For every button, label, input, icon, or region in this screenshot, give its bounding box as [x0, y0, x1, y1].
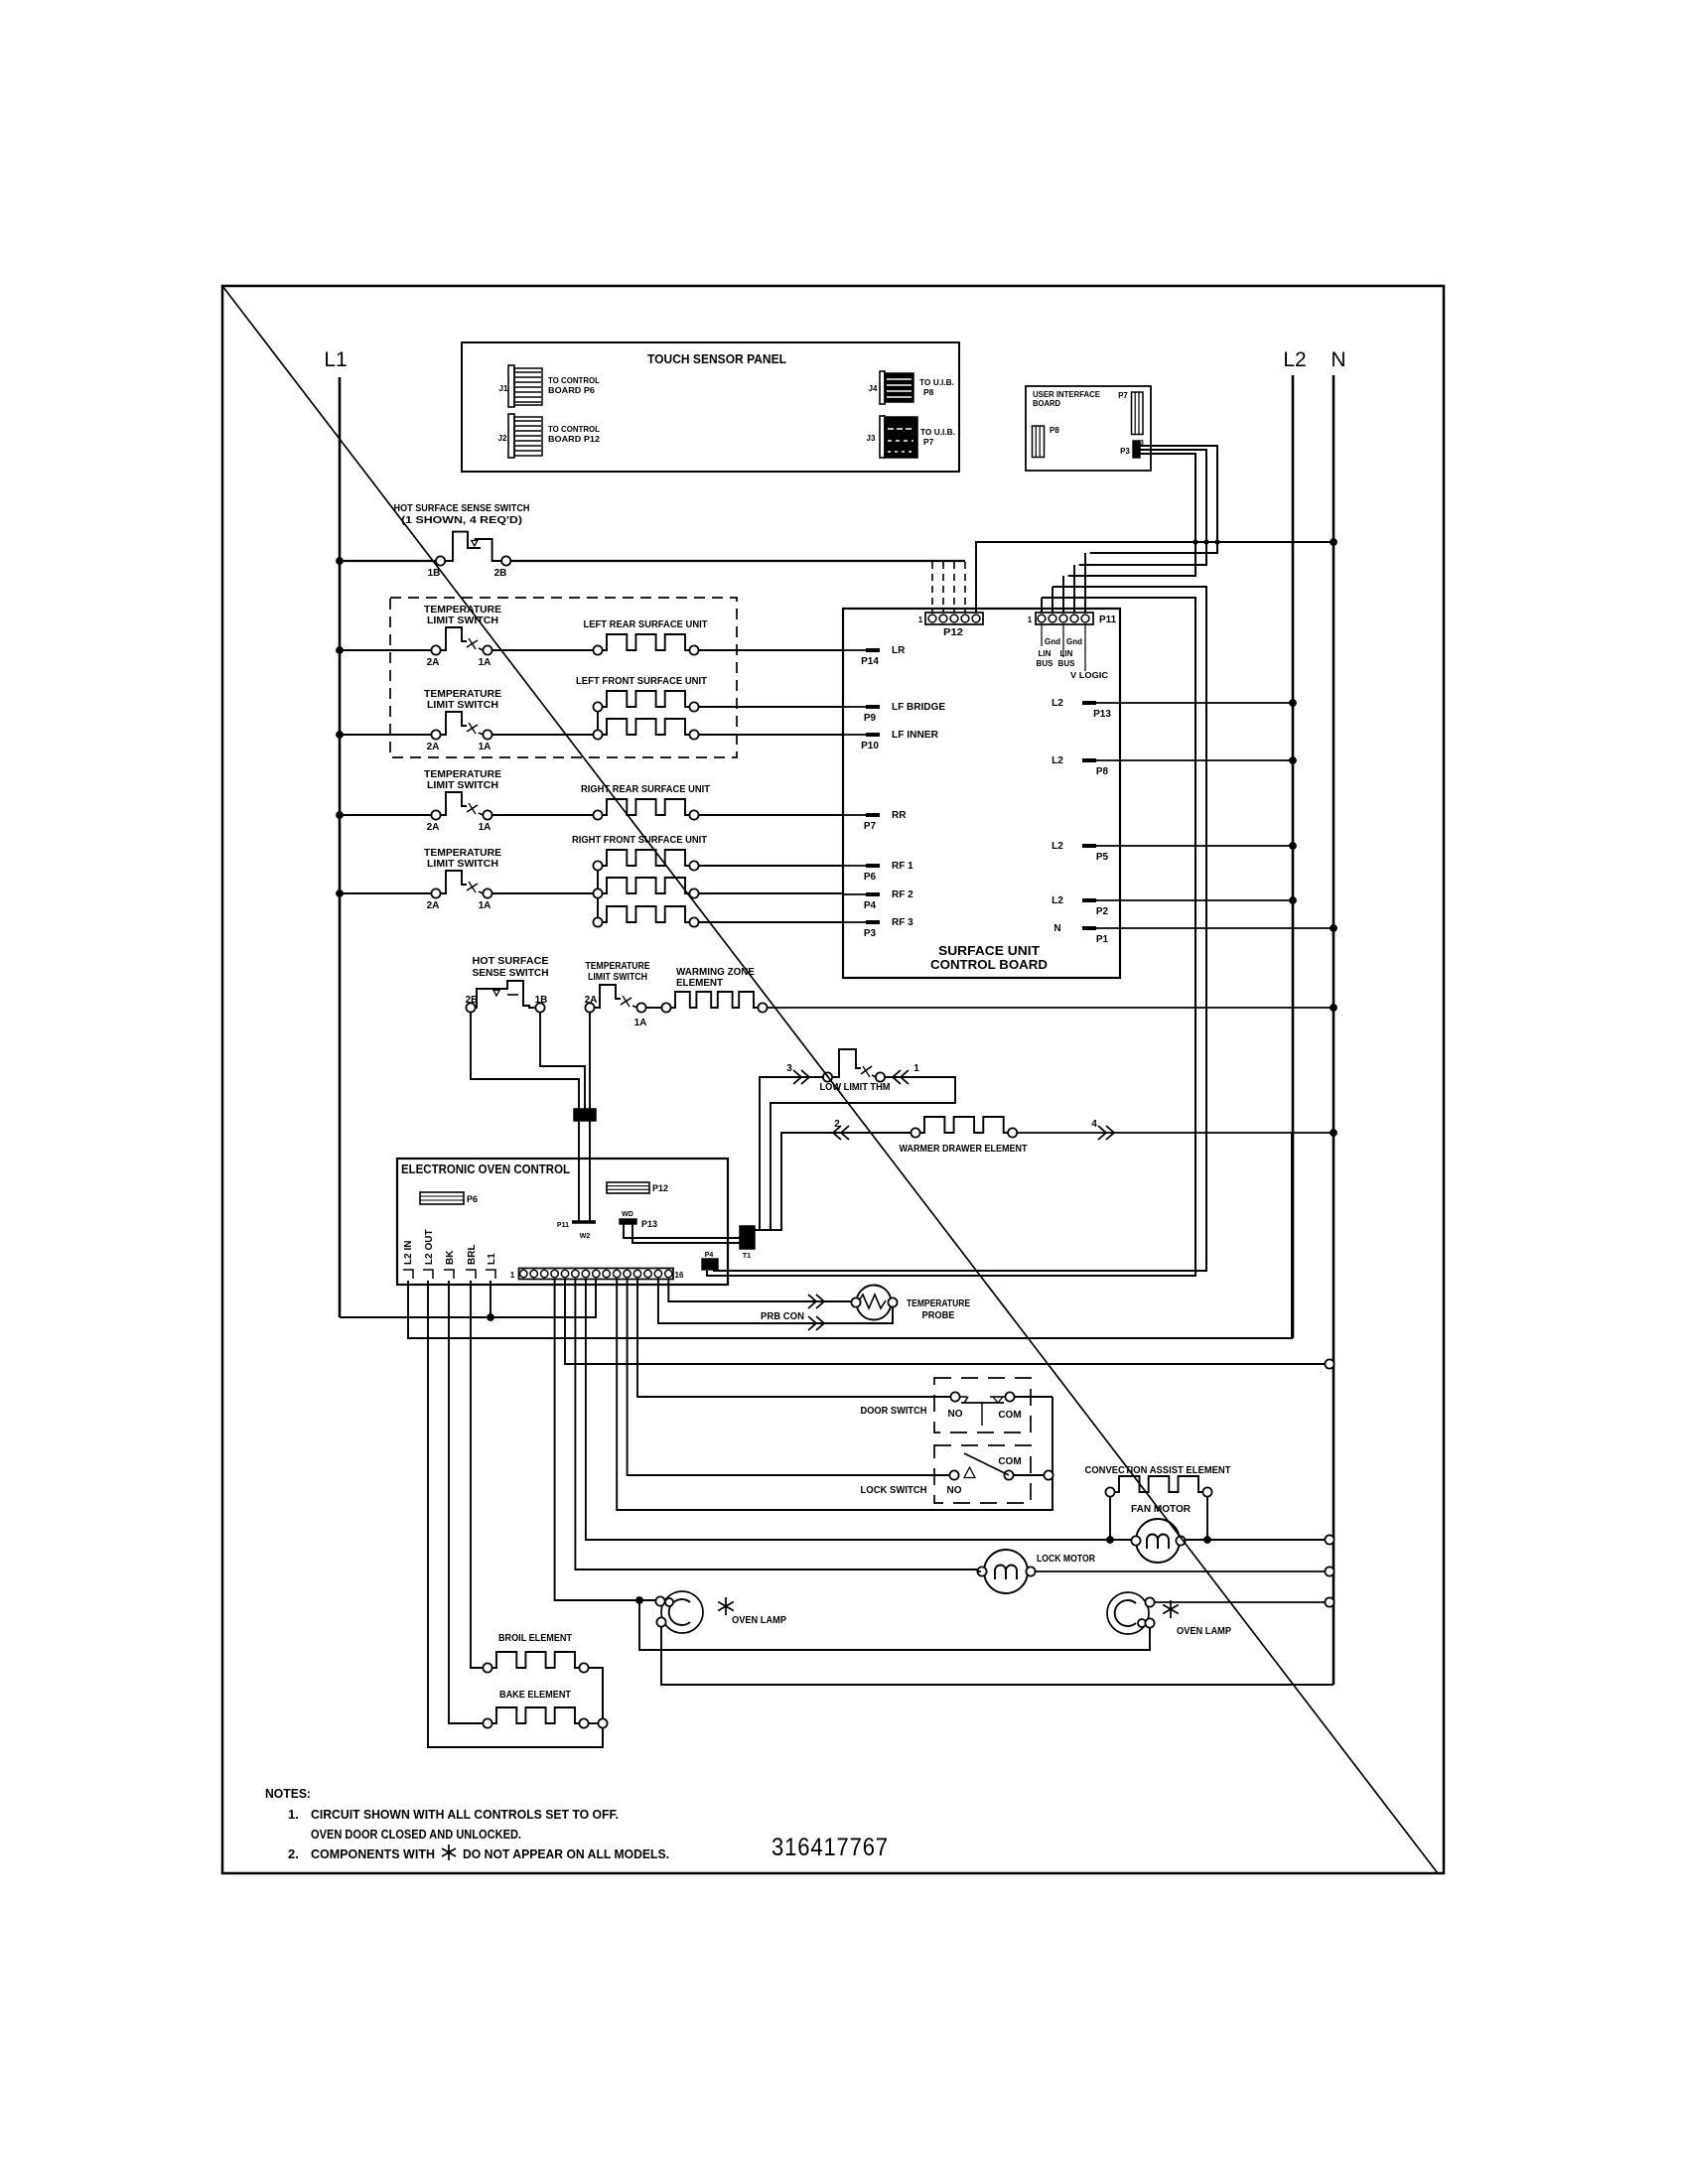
- wire switch to element LR: [492, 649, 593, 651]
- wire P1 to N: [1120, 927, 1333, 929]
- svg-text:BAKE ELEMENT: BAKE ELEMENT: [499, 1690, 571, 1701]
- pin P10 stub on surface unit control board: [843, 734, 880, 736]
- connector P3 on user interface board: [1133, 441, 1140, 458]
- svg-text:NO: NO: [948, 1409, 963, 1420]
- wire LF inner to P10: [699, 734, 843, 736]
- svg-text:LEFT REAR SURFACE UNIT: LEFT REAR SURFACE UNIT: [584, 619, 708, 630]
- temperature limit switch LR: [431, 645, 440, 654]
- lock switch box: [934, 1445, 1031, 1503]
- temperature limit switch RF: [431, 888, 440, 897]
- dashed boundary left surface units: [390, 598, 737, 757]
- node L1 row LR: [336, 646, 344, 654]
- wire LIN BUS left vertical: [707, 598, 1195, 1276]
- wire L1 vertical bus: [339, 377, 342, 1317]
- svg-text:P4: P4: [864, 900, 877, 911]
- wire P13 to L2: [1120, 702, 1293, 704]
- P11 pin wires to bundle: [1041, 598, 1043, 613]
- heating element bake: [483, 1718, 491, 1727]
- svg-text:P7: P7: [923, 437, 934, 447]
- wire L2 IN to L2 bus: [408, 1134, 1292, 1338]
- wire L1 bus to oven control L1 terminal: [340, 1279, 596, 1317]
- svg-text:TO CONTROL: TO CONTROL: [548, 424, 600, 434]
- wire pin11 to lock switch: [628, 1279, 949, 1475]
- svg-text:1A: 1A: [479, 657, 491, 668]
- heating element warmer drawer: [911, 1128, 919, 1137]
- wire N to surface board P12 pin 5: [976, 542, 1333, 613]
- svg-text:P3: P3: [1120, 447, 1130, 456]
- svg-text:LIMIT SWITCH: LIMIT SWITCH: [427, 780, 498, 791]
- arrow connector 3: [793, 1070, 801, 1084]
- svg-text:LEFT FRONT SURFACE UNIT: LEFT FRONT SURFACE UNIT: [576, 676, 707, 687]
- svg-text:NOTES:: NOTES:: [265, 1786, 311, 1801]
- border frame: [222, 286, 1444, 1873]
- heating element left front bridge: [593, 702, 602, 711]
- wire oven control L1 terminal drop: [490, 1281, 491, 1317]
- wire RF element tie: [597, 866, 599, 922]
- svg-text:BK: BK: [445, 1250, 456, 1265]
- arrow connector 1: [901, 1070, 909, 1084]
- svg-text:L2 OUT: L2 OUT: [424, 1229, 435, 1265]
- svg-text:1B: 1B: [535, 995, 548, 1006]
- wire RF1 to P6: [699, 865, 843, 867]
- svg-text:DOOR SWITCH: DOOR SWITCH: [861, 1406, 927, 1417]
- wire elements common down: [602, 1728, 604, 1747]
- wire sense switch to control board P12: [510, 560, 965, 562]
- svg-text:COM: COM: [998, 1456, 1021, 1467]
- svg-text:J2: J2: [498, 434, 507, 443]
- wire pin4 to oven lamp line: [555, 1279, 655, 1600]
- wire L1 to temperature limit switch LF: [340, 734, 436, 736]
- svg-text:OVEN LAMP: OVEN LAMP: [1177, 1626, 1231, 1637]
- pin P13 stub on surface unit control board: [1082, 702, 1120, 704]
- oven control terminal L2 OUT: [423, 1270, 433, 1279]
- pin P4 stub on surface unit control board: [843, 893, 880, 895]
- svg-text:LIN: LIN: [1060, 649, 1073, 658]
- svg-text:1.: 1.: [288, 1807, 299, 1822]
- heating element left front inner: [593, 730, 602, 739]
- svg-text:LOW LIMIT THM: LOW LIMIT THM: [820, 1082, 891, 1093]
- wire switch to element LF: [492, 734, 593, 736]
- door switch contacts: [950, 1392, 959, 1401]
- svg-text:LIMIT SWITCH: LIMIT SWITCH: [427, 615, 498, 626]
- svg-text:PROBE: PROBE: [922, 1310, 955, 1321]
- heating element right front 3: [593, 917, 602, 926]
- svg-text:N: N: [1053, 923, 1060, 934]
- inline connector warming zone: [574, 1109, 596, 1121]
- svg-text:316417767: 316417767: [772, 1834, 889, 1861]
- svg-text:SURFACE UNIT: SURFACE UNIT: [938, 943, 1040, 958]
- svg-text:BOARD P6: BOARD P6: [548, 385, 595, 395]
- svg-text:WARMER DRAWER ELEMENT: WARMER DRAWER ELEMENT: [900, 1144, 1028, 1155]
- wire L1 to hot surface sense switch: [340, 560, 436, 562]
- pin P2 stub on surface unit control board: [1082, 899, 1120, 901]
- svg-text:P11: P11: [1099, 614, 1117, 625]
- svg-text:1: 1: [918, 615, 923, 624]
- wire L2 OUT to elements common: [428, 1281, 603, 1747]
- wire lock switch COM to drop: [1014, 1474, 1045, 1476]
- wire low limit right loop: [755, 1077, 955, 1230]
- svg-text:Gnd: Gnd: [1066, 637, 1082, 646]
- connector J1: [508, 365, 514, 407]
- heating element right front 1: [593, 861, 602, 870]
- touch sensor panel box: [462, 342, 959, 472]
- terminal strip on oven control: [519, 1269, 674, 1280]
- connector T1: [740, 1226, 755, 1249]
- wire left lamp loop to right lamp: [639, 1600, 1150, 1650]
- svg-text:N: N: [1331, 348, 1345, 371]
- oven lamp left: [661, 1591, 703, 1633]
- wire P8 to L2: [1120, 759, 1293, 761]
- connector P7 on user interface board: [1132, 392, 1144, 435]
- svg-text:RF 1: RF 1: [892, 861, 913, 872]
- heating element left rear surface unit: [593, 645, 602, 654]
- svg-text:HOT SURFACE SENSE SWITCH: HOT SURFACE SENSE SWITCH: [394, 502, 530, 514]
- electronic oven control box: [397, 1159, 728, 1285]
- svg-text:J4: J4: [869, 384, 878, 393]
- wire U.I.B. P3 to P11 pin5: [1090, 446, 1217, 553]
- wire pin10 to lock circuit: [617, 1279, 1052, 1510]
- svg-text:P12: P12: [943, 627, 963, 638]
- connector J2: [508, 414, 514, 458]
- svg-text:1: 1: [510, 1271, 515, 1280]
- svg-text:RIGHT REAR SURFACE UNIT: RIGHT REAR SURFACE UNIT: [581, 784, 710, 795]
- wire BRL to broil element: [471, 1281, 483, 1668]
- pin P1 stub on surface unit control board: [1082, 927, 1120, 929]
- svg-text:L2 IN: L2 IN: [403, 1241, 414, 1265]
- svg-text:P6: P6: [467, 1194, 478, 1204]
- pin P8 stub on surface unit control board: [1082, 759, 1120, 761]
- wire broil to bake common: [589, 1668, 603, 1718]
- svg-text:TOUCH SENSOR PANEL: TOUCH SENSOR PANEL: [647, 351, 786, 366]
- wire warmer drawer to N: [1017, 1132, 1333, 1134]
- svg-text:BUS: BUS: [1037, 659, 1054, 668]
- svg-text:2A: 2A: [427, 742, 440, 752]
- svg-text:P3: P3: [864, 928, 877, 939]
- wire pin12 to door switch: [637, 1279, 950, 1397]
- pin P14 stub on surface unit control board: [843, 649, 880, 651]
- wire U.I.B. P3 to P11 pin3: [1068, 454, 1195, 576]
- wire pin6 to lock motor line: [575, 1279, 977, 1570]
- wire LIN BUS right vertical: [714, 587, 1206, 1271]
- svg-text:RR: RR: [892, 810, 907, 821]
- svg-text:LIMIT SWITCH: LIMIT SWITCH: [588, 972, 647, 983]
- connector P12 on surface unit control board: [925, 613, 983, 624]
- wire BK to bake element: [449, 1281, 483, 1723]
- node L1 row LF: [336, 731, 344, 739]
- svg-text:P4: P4: [705, 1252, 714, 1259]
- svg-text:RIGHT FRONT SURFACE UNIT: RIGHT FRONT SURFACE UNIT: [572, 835, 707, 846]
- svg-text:TEMPERATURE: TEMPERATURE: [424, 848, 501, 859]
- svg-text:3: 3: [786, 1063, 792, 1074]
- wire warmer drawer left drop: [755, 1133, 915, 1230]
- pin P7 stub on surface unit control board: [843, 814, 880, 816]
- svg-text:2A: 2A: [427, 822, 440, 833]
- svg-text:L1: L1: [324, 348, 347, 371]
- svg-text:P13: P13: [1093, 709, 1111, 720]
- svg-text:TEMPERATURE: TEMPERATURE: [586, 961, 650, 972]
- pin P5 stub on surface unit control board: [1082, 845, 1120, 847]
- svg-text:W2: W2: [580, 1233, 591, 1240]
- node L1 row RR: [336, 811, 344, 819]
- oven control terminal L2 IN: [403, 1270, 413, 1279]
- user interface board box: [1026, 386, 1151, 471]
- svg-text:USER INTERFACE: USER INTERFACE: [1033, 390, 1101, 399]
- svg-text:BOARD: BOARD: [1033, 399, 1060, 408]
- wire convection element legs: [1109, 1497, 1111, 1540]
- wire left lamp bottom to bottom bus: [661, 1627, 1333, 1685]
- wire low limit left drop: [755, 1077, 828, 1230]
- dashed cable drops to P12: [931, 562, 933, 608]
- svg-text:1: 1: [913, 1063, 919, 1074]
- wire L1 to temperature limit switch RF: [340, 892, 436, 894]
- svg-text:NO: NO: [947, 1485, 962, 1496]
- svg-text:TEMPERATURE: TEMPERATURE: [424, 689, 501, 700]
- wire 2B down to connector: [471, 1013, 579, 1109]
- heating element right rear surface unit: [593, 810, 602, 819]
- svg-text:LIN: LIN: [1039, 649, 1052, 658]
- wires connector to oven control P11: [578, 1121, 580, 1222]
- svg-text:2: 2: [834, 1119, 840, 1130]
- wire RF3 to P3: [699, 921, 843, 923]
- wire N vertical bus: [1333, 375, 1335, 1685]
- svg-text:P7: P7: [864, 821, 877, 832]
- svg-text:2B: 2B: [466, 995, 479, 1006]
- lock switch contacts: [949, 1470, 958, 1479]
- pin P6 stub on surface unit control board: [843, 865, 880, 867]
- arrow connector 2: [841, 1126, 849, 1140]
- svg-text:RF 2: RF 2: [892, 889, 913, 900]
- svg-text:J1: J1: [499, 384, 508, 393]
- connector P6 on oven control: [420, 1192, 464, 1204]
- junction dots on N feed wire: [1193, 539, 1197, 544]
- svg-text:LIMIT SWITCH: LIMIT SWITCH: [427, 700, 498, 711]
- wire pin14 to probe return: [658, 1279, 893, 1323]
- wire RF2 to P4: [699, 892, 843, 894]
- low limit thermostat switch: [823, 1072, 832, 1081]
- svg-text:P13: P13: [641, 1219, 657, 1229]
- svg-text:4: 4: [1091, 1119, 1097, 1130]
- heating element warming zone: [661, 1003, 670, 1012]
- diagonal revision line: [222, 286, 1438, 1873]
- svg-text:L2: L2: [1052, 895, 1063, 906]
- svg-text:2.: 2.: [288, 1846, 299, 1861]
- svg-text:P14: P14: [861, 656, 879, 667]
- lock motor: [984, 1550, 1028, 1593]
- svg-text:2B: 2B: [494, 568, 507, 579]
- heating element broil: [483, 1663, 491, 1672]
- svg-text:L2: L2: [1283, 348, 1306, 371]
- wire lock motor line to N: [1036, 1570, 1329, 1572]
- svg-text:V LOGIC: V LOGIC: [1070, 671, 1108, 680]
- connector P13 WD on oven control: [620, 1219, 636, 1224]
- hot surface sense switch S1: [436, 556, 445, 565]
- svg-text:TO U.I.B.: TO U.I.B.: [920, 427, 955, 437]
- svg-text:BUS: BUS: [1058, 659, 1076, 668]
- wire element LR to P14: [699, 649, 843, 651]
- hot surface sense switch warming zone: [466, 1003, 475, 1012]
- svg-text:RF 3: RF 3: [892, 917, 913, 928]
- wire L1 to temperature limit switch RR: [340, 814, 436, 816]
- svg-text:LOCK MOTOR: LOCK MOTOR: [1037, 1554, 1096, 1565]
- wire switch to warming element: [646, 1007, 661, 1009]
- svg-text:1B: 1B: [428, 568, 441, 579]
- connector P8 on user interface board: [1033, 426, 1045, 458]
- svg-text:COMPONENTS WITH: COMPONENTS WITH: [311, 1846, 435, 1861]
- wire bake right terminal: [589, 1722, 598, 1724]
- wire P2 to L2: [1120, 899, 1293, 901]
- svg-text:1A: 1A: [479, 742, 491, 752]
- svg-text:TEMPERATURE: TEMPERATURE: [424, 769, 501, 780]
- P11 pin name leaders: [1041, 624, 1043, 646]
- svg-text:TEMPERATURE: TEMPERATURE: [907, 1298, 970, 1309]
- arrow connector 4: [1098, 1126, 1106, 1140]
- wire P5 to L2: [1120, 845, 1293, 847]
- wire warming element to N: [768, 1007, 1333, 1009]
- svg-text:LF INNER: LF INNER: [892, 730, 939, 741]
- svg-text:LOCK SWITCH: LOCK SWITCH: [861, 1485, 927, 1496]
- svg-text:L2: L2: [1052, 698, 1063, 709]
- wire switch to element RF: [492, 892, 593, 894]
- wire LF element pair tie: [597, 707, 599, 735]
- svg-text:WD: WD: [622, 1211, 633, 1218]
- svg-text:BROIL ELEMENT: BROIL ELEMENT: [498, 1633, 572, 1644]
- svg-text:16: 16: [675, 1271, 684, 1280]
- svg-text:COM: COM: [998, 1410, 1021, 1421]
- svg-text:L2: L2: [1052, 755, 1063, 766]
- svg-text:P9: P9: [864, 713, 877, 724]
- oven control terminal BRL: [466, 1270, 476, 1279]
- wire right lamp to N: [1155, 1601, 1329, 1603]
- temperature limit switch RR: [431, 810, 440, 819]
- svg-text:CONVECTION ASSIST ELEMENT: CONVECTION ASSIST ELEMENT: [1085, 1465, 1231, 1476]
- svg-text:T1: T1: [743, 1253, 751, 1260]
- fan motor: [1136, 1519, 1180, 1563]
- svg-text:Gnd: Gnd: [1045, 637, 1060, 646]
- svg-text:CONTROL BOARD: CONTROL BOARD: [930, 957, 1048, 972]
- svg-text:P2: P2: [1096, 906, 1109, 917]
- door switch box: [934, 1378, 1031, 1433]
- svg-text:SENSE SWITCH: SENSE SWITCH: [473, 968, 549, 979]
- svg-text:2A: 2A: [427, 657, 440, 668]
- svg-text:1A: 1A: [634, 1018, 647, 1028]
- temperature limit switch LF: [431, 730, 440, 739]
- connector P4 GND on oven control: [702, 1259, 718, 1270]
- svg-text:DO NOT APPEAR ON ALL MODELS.: DO NOT APPEAR ON ALL MODELS.: [463, 1846, 669, 1861]
- wire P13 to T1 upper: [624, 1224, 755, 1238]
- wire 2A down to connector: [589, 1013, 591, 1109]
- svg-text:1A: 1A: [479, 822, 491, 833]
- wire switch to element RR: [492, 814, 593, 816]
- connector P11 W2 on oven control: [572, 1220, 596, 1224]
- wire 1B down to connector: [540, 1013, 585, 1109]
- connector P12 on oven control: [607, 1182, 649, 1193]
- svg-text:BRL: BRL: [467, 1244, 478, 1265]
- svg-text:LF BRIDGE: LF BRIDGE: [892, 702, 945, 713]
- svg-text:L1: L1: [487, 1253, 497, 1265]
- svg-text:PRB CON: PRB CON: [761, 1311, 804, 1322]
- svg-text:CIRCUIT SHOWN WITH ALL CONTROL: CIRCUIT SHOWN WITH ALL CONTROLS SET TO O…: [311, 1807, 619, 1822]
- svg-text:P1: P1: [1096, 934, 1109, 945]
- connector P11 on surface unit control board: [1036, 613, 1093, 624]
- wire U.I.B. P3 to P11 pin4: [1079, 450, 1206, 565]
- svg-text:WARMING ZONE: WARMING ZONE: [676, 967, 755, 978]
- svg-text:2A: 2A: [427, 900, 440, 911]
- node L1 to sense switch junction: [336, 557, 344, 565]
- oven control terminal BK: [444, 1270, 454, 1279]
- svg-text:P8: P8: [1050, 426, 1059, 435]
- heating element convection assist: [1105, 1487, 1114, 1496]
- node L1 row RF: [336, 889, 344, 897]
- arrow probe feed: [808, 1295, 816, 1308]
- svg-text:P10: P10: [861, 741, 879, 751]
- svg-text:1: 1: [1028, 615, 1033, 624]
- svg-text:P12: P12: [652, 1183, 668, 1193]
- wire pin15 to probe: [668, 1279, 851, 1301]
- svg-text:P5: P5: [1096, 852, 1109, 863]
- temperature probe: [857, 1286, 892, 1320]
- temperature limit switch warming zone: [585, 1003, 594, 1012]
- svg-text:ELEMENT: ELEMENT: [676, 978, 723, 989]
- svg-text:J3: J3: [867, 434, 876, 443]
- svg-text:BOARD P12: BOARD P12: [548, 434, 600, 444]
- wire L1 to temperature limit switch LR: [340, 649, 436, 651]
- svg-text:OVEN LAMP: OVEN LAMP: [732, 1615, 786, 1626]
- svg-text:TO CONTROL: TO CONTROL: [548, 375, 600, 385]
- svg-text:P8: P8: [923, 387, 934, 397]
- svg-text:P11: P11: [557, 1222, 569, 1229]
- wire pin7 to fan motor line: [586, 1279, 1329, 1540]
- connector J3: [880, 416, 885, 458]
- oven control terminal L1: [486, 1270, 495, 1279]
- svg-text:LR: LR: [892, 645, 906, 656]
- arrow probe return: [808, 1316, 816, 1330]
- svg-text:LIMIT SWITCH: LIMIT SWITCH: [427, 859, 498, 870]
- surface unit control board box: [843, 609, 1120, 978]
- svg-text:OVEN DOOR CLOSED AND UNLOCKED.: OVEN DOOR CLOSED AND UNLOCKED.: [311, 1827, 521, 1842]
- wire L2 vertical bus: [1292, 375, 1295, 1338]
- svg-text:L2: L2: [1052, 841, 1063, 852]
- svg-text:TO U.I.B.: TO U.I.B.: [919, 377, 954, 387]
- svg-text:HOT SURFACE: HOT SURFACE: [473, 956, 549, 967]
- svg-text:1A: 1A: [479, 900, 491, 911]
- wire LF bridge to P9: [699, 706, 843, 708]
- pin P9 stub on surface unit control board: [843, 706, 880, 708]
- svg-text:(1 SHOWN, 4 REQ'D): (1 SHOWN, 4 REQ'D): [401, 514, 522, 526]
- heating element right front 2: [593, 888, 602, 897]
- svg-text:TEMPERATURE: TEMPERATURE: [424, 605, 501, 615]
- svg-text:P7: P7: [1118, 391, 1128, 400]
- svg-text:P8: P8: [1096, 766, 1109, 777]
- pin P3 stub on surface unit control board: [843, 921, 880, 923]
- wire door switch COM to lock drop: [1015, 1396, 1052, 1398]
- wire pin5 to N: [565, 1279, 1329, 1364]
- oven lamp right: [1107, 1592, 1149, 1634]
- connector J4: [880, 371, 885, 404]
- svg-text:2A: 2A: [585, 995, 598, 1006]
- wire P13 to T1 lower: [632, 1224, 740, 1243]
- wire element RR to P7: [699, 814, 843, 816]
- svg-text:ELECTRONIC OVEN CONTROL: ELECTRONIC OVEN CONTROL: [401, 1162, 570, 1176]
- svg-text:P6: P6: [864, 872, 877, 883]
